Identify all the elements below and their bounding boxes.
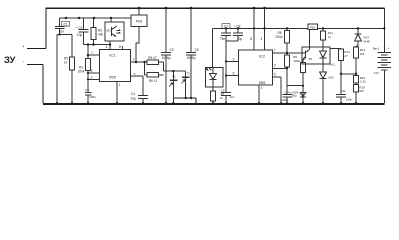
svg-text:R6 47: R6 47 <box>149 79 158 83</box>
svg-text:10k: 10k <box>360 52 365 56</box>
svg-text:1: 1 <box>119 83 121 87</box>
svg-text:3: 3 <box>133 58 135 62</box>
svg-text:T2: T2 <box>172 74 176 78</box>
svg-text:C11: C11 <box>340 89 346 93</box>
svg-text:160k: 160k <box>78 70 85 74</box>
svg-text:C5: C5 <box>169 48 173 52</box>
svg-text:200k: 200k <box>276 35 283 39</box>
svg-text:1: 1 <box>261 86 263 90</box>
svg-text:4: 4 <box>261 37 263 41</box>
svg-text:5W: 5W <box>359 89 364 93</box>
svg-text:2: 2 <box>233 57 235 61</box>
svg-text:VD2: VD2 <box>328 76 334 80</box>
svg-text:ЗУ: ЗУ <box>4 54 16 65</box>
svg-text:+ C2: + C2 <box>76 26 83 30</box>
svg-text:C3: C3 <box>85 88 89 92</box>
svg-text:5: 5 <box>274 72 276 76</box>
svg-text:HL1: HL1 <box>330 63 336 67</box>
svg-text:51n: 51n <box>59 30 65 34</box>
svg-text:100n: 100n <box>346 97 353 101</box>
svg-text:10n: 10n <box>229 95 234 99</box>
svg-text:100µ: 100µ <box>281 98 288 102</box>
svg-text:2: 2 <box>91 75 93 79</box>
svg-text:C7: C7 <box>224 25 228 29</box>
svg-text:8: 8 <box>119 45 121 49</box>
svg-text:IC2: IC2 <box>259 54 266 59</box>
svg-text:1000µ: 1000µ <box>162 56 171 60</box>
svg-text:+: + <box>22 44 25 49</box>
svg-text:Бат1: Бат1 <box>373 46 380 50</box>
svg-text:4148: 4148 <box>363 39 370 43</box>
svg-text:100k: 100k <box>293 59 300 63</box>
svg-text:75n: 75n <box>220 37 226 41</box>
svg-text:6: 6 <box>91 69 93 73</box>
svg-text:7: 7 <box>274 48 276 52</box>
svg-text:3: 3 <box>274 64 276 68</box>
svg-text:1k: 1k <box>328 35 332 39</box>
svg-text:100n: 100n <box>89 95 96 99</box>
svg-text:7: 7 <box>91 51 93 55</box>
svg-text:10µ: 10µ <box>130 96 136 100</box>
svg-text:1k: 1k <box>64 61 68 65</box>
svg-text:8: 8 <box>250 37 252 41</box>
svg-text:5: 5 <box>134 72 136 76</box>
svg-text:6: 6 <box>233 72 235 76</box>
svg-text:R5 47: R5 47 <box>148 56 157 60</box>
svg-text:2.2k: 2.2k <box>360 80 366 84</box>
svg-text:12У: 12У <box>374 71 379 75</box>
svg-text:10µ: 10µ <box>237 37 243 41</box>
svg-text:555: 555 <box>109 74 116 79</box>
svg-text:T3: T3 <box>186 72 190 76</box>
svg-text:43k: 43k <box>98 33 104 37</box>
svg-text:+: + <box>387 47 389 51</box>
svg-text:-: - <box>23 59 25 64</box>
svg-text:+ C8: + C8 <box>234 25 241 29</box>
svg-text:IC1: IC1 <box>109 53 116 58</box>
svg-text:ФТ: ФТ <box>309 57 313 61</box>
svg-text:C4: C4 <box>131 92 135 96</box>
svg-text:C6: C6 <box>194 48 198 52</box>
svg-text:РЕ2: РЕ2 <box>310 25 316 29</box>
svg-text:1k: 1k <box>220 96 224 100</box>
svg-text:1000µ: 1000µ <box>187 56 196 60</box>
svg-text:РН2: РН2 <box>136 20 143 24</box>
svg-text:40µ: 40µ <box>292 94 297 98</box>
svg-text:10µ: 10µ <box>77 33 83 37</box>
svg-text:4: 4 <box>106 45 108 49</box>
svg-text:ФО: ФО <box>106 29 111 33</box>
svg-text:47: 47 <box>344 54 348 58</box>
svg-text:555: 555 <box>259 80 266 85</box>
